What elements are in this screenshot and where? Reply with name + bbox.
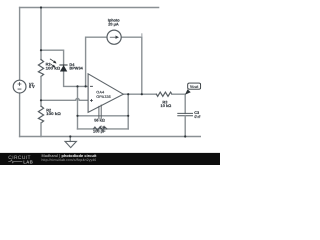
resistor R2 [38,106,43,123]
wire feedback right vertical [127,94,129,129]
node dot ground on rail [69,135,71,137]
wire feedback left vertical [77,86,79,128]
svg-text:100 kΩ: 100 kΩ [46,111,61,116]
node dot R1/R2 plus input [40,99,42,101]
node dot R1 top / diode branch [40,49,42,51]
op-amp power pin bars / feedback cap C4 plates [99,105,101,118]
svg-text:20 µA: 20 µA [108,21,119,26]
node dot top rail/R1 [40,6,42,8]
current source arrow [110,36,119,39]
watermark bar [0,153,220,165]
current source Iphoto circle [107,30,121,44]
svg-text:http://circuitlab.com/c/8qx4rt: http://circuitlab.com/c/8qx4rt2yy46 [42,158,97,162]
svg-text:5 V: 5 V [29,84,35,89]
ground rail wire [20,136,201,138]
node dot current source at minus net [85,85,87,87]
svg-text:100 pF: 100 pF [93,129,106,134]
svg-text:LAB: LAB [23,159,33,164]
wire output [123,93,156,95]
svg-text:56 kΩ: 56 kΩ [94,118,105,123]
node dot current source at output [141,93,143,95]
wire stub artifact above corner [141,34,143,36]
light arrows into D4 [50,59,56,68]
svg-text:BPW34: BPW34 [69,66,83,71]
resistor 56k zigzag on feedback row2 [94,127,107,130]
wire between R1 and R2 [40,77,42,107]
Vout flag [185,89,191,95]
wire top rail (dangling right end) [20,7,159,9]
wire feedback row2 [78,128,129,130]
op-amp OA4 input pin marks (inverting / non-inverting) [90,86,93,102]
wire plus input from divider [41,98,88,100]
svg-text:47 nF: 47 nF [194,114,201,119]
wire feedback row1 [78,115,129,117]
ground symbol [69,137,71,142]
wire R2 bottom to rail [40,123,42,137]
svg-text:OPA336: OPA336 [96,94,111,99]
photodiode D4 [50,59,68,72]
svg-text:10 kΩ: 10 kΩ [161,103,172,108]
resistor R3 [156,92,172,96]
node dot C3 on rail [184,135,186,137]
node dot output apex [127,93,129,95]
resistor R1 [38,60,43,77]
wire photodiode anode down to minus net [64,71,89,86]
node dot feedback right row1 [127,115,129,117]
capacitor C3 plates [178,113,193,115]
node dot feedback left top [76,85,78,87]
op-amp OA4 OPA336 triangle [88,74,123,113]
wire R3 to output node [172,94,185,113]
svg-text:Vout: Vout [190,84,199,89]
wire current source left to minus node [86,37,107,86]
wire V2 bottom to ground rail [19,93,21,137]
wire C3 to rail [184,116,186,137]
node dot feedback left row1 [76,115,78,117]
voltage source V2 [13,80,26,93]
svg-text:100 kΩ: 100 kΩ [46,65,61,70]
junction dots [40,6,186,137]
wire R1 branch vertical top [40,8,42,60]
wire current source right lead down to output node [121,37,142,94]
wire left vertical from top rail to V2 [19,8,21,81]
wire from R1 top node to photodiode branch [41,50,64,65]
